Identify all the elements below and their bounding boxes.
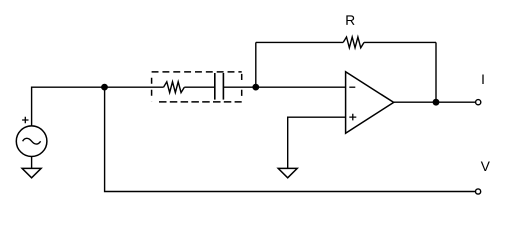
wire: node B to op-amp inverting input <box>256 86 346 88</box>
terminal I (open circle) <box>476 100 481 105</box>
wire: resistor to capacitor <box>184 86 214 88</box>
resistor (inside dashed box) <box>164 82 185 93</box>
wire: feedback riser from node B <box>255 42 257 87</box>
terminal V (open circle) <box>476 189 481 194</box>
node C junction dot (output) <box>433 99 440 106</box>
wire: top rail right of R <box>364 41 436 43</box>
label I <box>482 75 483 84</box>
non-inverting input plus mark <box>349 114 356 121</box>
ground (op-amp non-inverting input) <box>278 168 297 177</box>
node A junction dot <box>101 84 108 91</box>
wire: top rail left of R <box>256 41 343 43</box>
op-amp U1 <box>346 72 394 133</box>
wire: source bottom to ground <box>31 157 33 169</box>
wire: capacitor to node B <box>223 86 255 88</box>
resistor R <box>343 37 364 48</box>
capacitor (inside dashed box) <box>215 73 224 100</box>
dashed box (sensor model) <box>152 72 242 102</box>
wire: feedback drop to output node <box>435 42 437 102</box>
label R <box>346 15 354 24</box>
wire: op-amp output to terminal I <box>394 101 476 103</box>
plus polarity label <box>22 117 28 123</box>
voltage source V1 <box>16 126 47 157</box>
wire: node A down and bottom rail to terminal V <box>105 87 476 191</box>
inverting input minus mark <box>349 86 355 88</box>
wire: op-amp non-inverting input to ground <box>288 117 346 168</box>
label V <box>481 162 490 171</box>
ground (voltage source) <box>22 168 41 177</box>
wire: node A to resistor <box>105 86 164 88</box>
wire: source top to node A <box>32 87 105 126</box>
node B junction dot <box>252 84 259 91</box>
